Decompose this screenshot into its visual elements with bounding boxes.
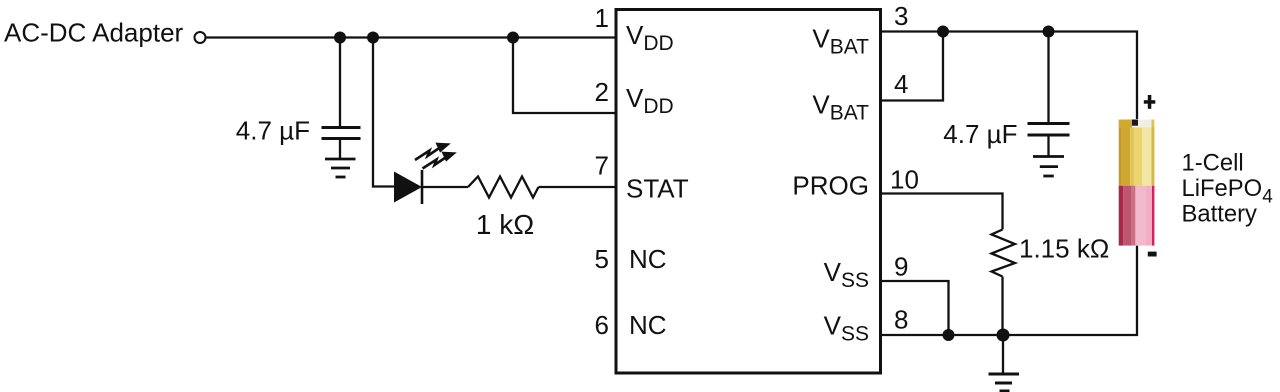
wire: adapter terminal to VDD pin 1 xyxy=(206,36,616,38)
junction: pin9 tap on VSS net xyxy=(943,329,955,341)
ground: below C1 xyxy=(325,159,356,177)
battery pink body xyxy=(1119,186,1124,246)
svg-text:VSS: VSS xyxy=(824,257,869,292)
ground: below C2 xyxy=(1033,157,1064,177)
svg-text:NC: NC xyxy=(629,244,667,274)
battery yellow body xyxy=(1119,128,1122,186)
svg-text:4.7 µF: 4.7 µF xyxy=(236,116,310,146)
junction: node C (VDD pin 2 tap) xyxy=(507,32,519,44)
wire: node B down to LED anode xyxy=(373,38,394,187)
svg-text:VDD: VDD xyxy=(626,83,674,118)
wire: R2 to VSS net xyxy=(1001,277,1003,336)
resistor R1 1 kOhm xyxy=(468,177,539,198)
wire: node C down and right to VDD pin 2 xyxy=(513,38,616,114)
svg-text:STAT: STAT xyxy=(626,174,689,204)
resistor R2 1.15 kOhm xyxy=(992,230,1016,277)
battery minus label xyxy=(1148,252,1157,257)
svg-text:6: 6 xyxy=(595,310,609,340)
wire: VSS pin 8 to battery minus xyxy=(880,246,1137,335)
svg-text:1: 1 xyxy=(595,3,609,33)
wire: VBAT pin 4 up to pin 3 net xyxy=(880,32,943,101)
svg-text:4.7 µF: 4.7 µF xyxy=(943,119,1017,149)
node: AC-DC adapter input terminal (open circle) xyxy=(195,32,206,43)
svg-text:PROG: PROG xyxy=(792,171,869,201)
LED emission arrow 1 xyxy=(415,144,448,160)
wire: PROG pin 10 to R2 xyxy=(880,194,1003,230)
svg-text:1 kΩ: 1 kΩ xyxy=(476,209,534,240)
svg-text:2: 2 xyxy=(595,77,609,107)
svg-text:NC: NC xyxy=(629,310,667,340)
wire: R1 to STAT pin 7 xyxy=(539,186,617,188)
svg-text:8: 8 xyxy=(894,305,908,335)
capacitor C2 4.7 uF xyxy=(1028,32,1070,156)
svg-text:3: 3 xyxy=(894,1,908,31)
svg-text:4: 4 xyxy=(894,69,908,99)
junction: node A (C1 tap) xyxy=(334,32,346,44)
junction: node B (LED branch tap) xyxy=(367,32,379,44)
battery plus label xyxy=(1144,100,1156,104)
capacitor C1 4.7 uF xyxy=(322,38,361,159)
ground: VSS net xyxy=(989,335,1020,391)
battery terminal nub xyxy=(1132,120,1138,126)
wire: VBAT pin 3 to battery plus xyxy=(880,32,1137,120)
IC U1 (battery charger) xyxy=(616,10,881,374)
svg-text:9: 9 xyxy=(894,252,908,282)
wire: LED cathode to R1 xyxy=(422,186,468,188)
svg-text:1.15 kΩ: 1.15 kΩ xyxy=(1019,234,1109,264)
junction: pin3/pin4 net xyxy=(937,26,949,38)
svg-text:5: 5 xyxy=(595,244,609,274)
junction: ground tap on VSS net xyxy=(997,329,1010,342)
svg-text:VDD: VDD xyxy=(626,20,674,55)
svg-text:1-Cell: 1-Cell xyxy=(1182,149,1244,176)
svg-text:10: 10 xyxy=(890,165,919,195)
battery BT1 (1-cell LiFePO4) xyxy=(1119,120,1155,246)
svg-text:VBAT: VBAT xyxy=(812,24,869,59)
LED emission arrow 2 xyxy=(423,153,454,169)
svg-text:VSS: VSS xyxy=(824,311,869,346)
svg-text:AC-DC Adapter: AC-DC Adapter xyxy=(4,18,184,48)
LED D1 (status LED) xyxy=(394,144,454,204)
battery top cap xyxy=(1119,120,1132,128)
svg-text:VBAT: VBAT xyxy=(812,90,869,125)
wire: VSS pin 9 down to VSS net xyxy=(880,281,949,335)
junction: C2 tap xyxy=(1043,26,1055,38)
svg-text:Battery: Battery xyxy=(1182,201,1257,228)
svg-text:7: 7 xyxy=(595,151,609,181)
